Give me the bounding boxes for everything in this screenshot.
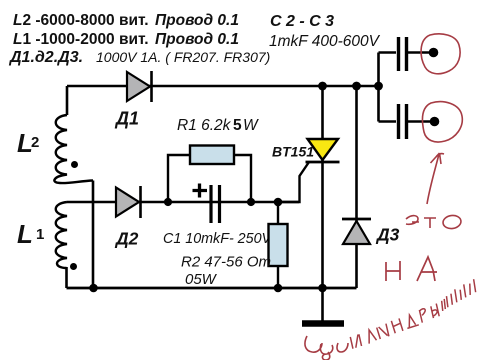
inductor L2 xyxy=(54,115,93,183)
node bus junction at caps xyxy=(374,82,383,91)
wire L1 bottom drop xyxy=(65,267,68,288)
svg-text:Провод 0.1: Провод 0.1 xyxy=(155,12,239,29)
wire top bus xyxy=(67,85,379,88)
annotation red arrow xyxy=(427,153,444,204)
svg-text:L2 -6000-8000 вит.: L2 -6000-8000 вит. xyxy=(13,12,149,29)
diode D3 xyxy=(342,219,371,244)
svg-text:R2 47-56 Om: R2 47-56 Om xyxy=(181,254,271,271)
wire left drop to L2 xyxy=(66,86,69,115)
svg-text:1: 1 xyxy=(36,226,44,243)
ground xyxy=(302,288,344,324)
annotation red circle around C2 terminal xyxy=(421,34,460,74)
svg-text:R1 6.2k: R1 6.2k xyxy=(177,117,232,134)
annotation "это" xyxy=(406,216,436,228)
svg-text:05W: 05W xyxy=(185,271,218,288)
node bus junction at D3 xyxy=(352,82,361,91)
diode D2 xyxy=(116,186,141,218)
node bottom junction thyristor xyxy=(318,284,327,293)
wire to C3 xyxy=(379,120,397,123)
svg-text:Д1: Д1 xyxy=(114,109,139,129)
annotation red circle around C3 terminal xyxy=(422,102,462,142)
inductor L1 xyxy=(56,202,67,268)
svg-text:Провод 0.1: Провод 0.1 xyxy=(155,31,239,48)
annotation scrawl "цилиндры" xyxy=(305,336,348,360)
annotation "НА" xyxy=(386,257,437,281)
wire gate of BT151 xyxy=(278,162,309,202)
svg-text:1mkF 400-600V: 1mkF 400-600V xyxy=(269,33,381,50)
node bottom junction R2 xyxy=(274,284,283,293)
node L1 tap dot xyxy=(70,263,77,270)
resistor R2 xyxy=(269,202,288,288)
svg-text:1000V 1A. ( FR207. FR307): 1000V 1A. ( FR207. FR307) xyxy=(96,49,270,65)
svg-text:C 2 - C 3: C 2 - C 3 xyxy=(270,13,334,30)
thyristor U1 BT151 vertical wire xyxy=(321,86,324,288)
svg-text:BT151: BT151 xyxy=(272,144,314,160)
wire vertical from L2 bottom to bottom bus xyxy=(92,181,95,289)
resistor R1 xyxy=(168,146,251,203)
node C3 output terminal xyxy=(430,117,440,127)
svg-text:5: 5 xyxy=(233,117,242,134)
node junction gate/R2 xyxy=(274,198,283,207)
svg-text:L1 -1000-2000 вит.: L1 -1000-2000 вит. xyxy=(13,31,149,48)
svg-text:Д3: Д3 xyxy=(375,225,400,245)
node junction right of C1 xyxy=(247,198,255,206)
wire middle bus xyxy=(67,201,299,204)
thyristor U1 BT151 xyxy=(306,139,340,162)
capacitor C3 xyxy=(399,104,431,139)
capacitor C2 xyxy=(399,37,431,71)
svg-text:C1 10mkF- 250V: C1 10mkF- 250V xyxy=(163,231,273,247)
node C2 output terminal xyxy=(429,48,439,58)
node bus junction at thyristor xyxy=(318,82,327,91)
svg-text:W: W xyxy=(243,117,259,134)
svg-text:Д1.д2.Д3.: Д1.д2.Д3. xyxy=(8,49,83,66)
diode D1 xyxy=(127,71,152,102)
node bottom junction L2 line xyxy=(89,284,98,293)
wire bottom bus xyxy=(67,287,357,290)
node L2 tap dot xyxy=(71,161,78,168)
svg-text:Д2: Д2 xyxy=(114,229,139,249)
svg-text:L: L xyxy=(17,219,33,249)
svg-text:2: 2 xyxy=(31,134,39,151)
node junction left of C1 xyxy=(164,198,172,206)
capacitor C1 xyxy=(193,184,220,224)
diode D3 vertical wire xyxy=(355,86,358,288)
wire caps branch vertical xyxy=(379,53,397,122)
